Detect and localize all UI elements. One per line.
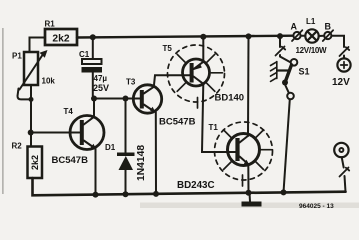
svg-text:T4: T4 — [64, 107, 74, 116]
wire P1 wiper to bottom — [18, 89, 32, 100]
svg-text:T3: T3 — [126, 78, 136, 87]
wire B to +12V — [331, 36, 344, 47]
terminal A — [293, 32, 300, 39]
svg-text:12V/10W: 12V/10W — [296, 46, 328, 55]
svg-text:964025 - 13: 964025 - 13 — [299, 203, 334, 208]
svg-text:BD243C: BD243C — [177, 180, 215, 191]
svg-text:T1: T1 — [209, 123, 219, 132]
wire T5 collector to T1 base — [202, 84, 235, 152]
T1 heatsink spokes — [224, 130, 272, 186]
svg-text:2k2: 2k2 — [30, 155, 40, 170]
node T1 rail junction — [246, 33, 252, 39]
node P1/R2/T4 junction — [28, 130, 34, 136]
switch S1 — [271, 59, 298, 86]
terminal +12V — [337, 58, 350, 71]
node S1 bus junction — [281, 189, 287, 195]
node T5 rail junction — [200, 34, 206, 40]
svg-text:T5: T5 — [163, 44, 173, 53]
wire A to lamp — [301, 35, 306, 37]
svg-text:47µ: 47µ — [94, 74, 108, 83]
wire R1 left lead — [30, 38, 46, 53]
svg-text:10k: 10k — [42, 77, 56, 86]
wire T1 emitter to bus — [247, 164, 249, 193]
wire top rail — [77, 36, 294, 38]
node D1 junction — [123, 96, 129, 102]
svg-text:C1: C1 — [79, 50, 90, 59]
resistor R2 — [28, 147, 43, 179]
wire T4 base — [31, 132, 80, 134]
svg-text:D1: D1 — [105, 143, 116, 152]
wire T3 collector to T5 base — [154, 75, 190, 87]
svg-text:25V: 25V — [93, 83, 109, 93]
transistor T5 heatsink dashed circle — [168, 45, 225, 102]
transistor T1 — [228, 134, 260, 166]
svg-text:B: B — [325, 22, 332, 32]
terminal B — [324, 32, 331, 39]
svg-text:2k2: 2k2 — [52, 33, 69, 44]
scan edge artifact — [2, 28, 4, 194]
wire 0V to bus corner — [345, 176, 346, 192]
node T3 emitter bus junction — [153, 191, 159, 197]
P1 arrow — [20, 54, 44, 90]
svg-text:BD140: BD140 — [215, 93, 245, 104]
connector slash above S1 — [276, 47, 286, 56]
node T1 emitter bus junction — [246, 190, 252, 196]
transistor T5 — [183, 59, 210, 86]
wire S1 branch — [279, 36, 281, 47]
svg-text:L1: L1 — [306, 17, 316, 26]
node T4 emitter bus junction — [93, 192, 99, 198]
wire T3 emitter to bus — [155, 112, 157, 194]
terminal 0V — [334, 143, 348, 157]
svg-text:S1: S1 — [299, 67, 310, 77]
potentiometer P1 — [24, 52, 38, 85]
capacitor C1 — [82, 37, 103, 96]
node P1 wiper junction — [29, 97, 34, 102]
lamp L1 — [305, 29, 318, 42]
wire lamp to B — [319, 35, 325, 37]
svg-text:BC547B: BC547B — [159, 117, 196, 128]
wire base node line — [94, 98, 140, 100]
wire 0V down — [342, 157, 344, 167]
resistor R1 — [45, 29, 77, 45]
wire T1 collector to rail — [247, 36, 250, 136]
diode D1 — [117, 99, 135, 195]
S1 lower contact — [287, 93, 294, 100]
wire slash to S1 contact — [280, 55, 291, 62]
node C1 top rail junction — [90, 34, 96, 40]
ground — [249, 193, 252, 202]
T5 heatsink spokes — [177, 54, 222, 108]
transistor T3 — [133, 85, 161, 113]
svg-text:R2: R2 — [12, 142, 23, 151]
wire P1 bottom column — [30, 85, 32, 147]
transistor T1 heatsink dashed circle — [215, 122, 273, 180]
wire T4 emitter to bus — [95, 149, 97, 195]
svg-text:A: A — [291, 22, 298, 32]
svg-text:R1: R1 — [45, 20, 56, 29]
connector slash 0V — [340, 168, 350, 177]
transistor T4 — [70, 116, 104, 151]
connector slash +12V — [340, 47, 350, 56]
wire S1 to bus — [284, 99, 290, 192]
wire T4 collector — [93, 99, 95, 117]
node D1 bus junction — [123, 191, 129, 197]
svg-text:BC547B: BC547B — [52, 155, 89, 166]
svg-text:P1: P1 — [12, 52, 22, 61]
node C1/T4 junction — [91, 96, 97, 102]
wire R2 to ground bus — [33, 178, 346, 195]
svg-text:12V: 12V — [332, 77, 350, 88]
svg-text:1N4148: 1N4148 — [136, 145, 147, 181]
wire S1 pivot to lower contact — [285, 85, 289, 93]
node S1 rail junction — [277, 33, 283, 39]
wire slash to +12V terminal — [343, 56, 345, 59]
wire T5 emitter to rail — [202, 37, 204, 62]
